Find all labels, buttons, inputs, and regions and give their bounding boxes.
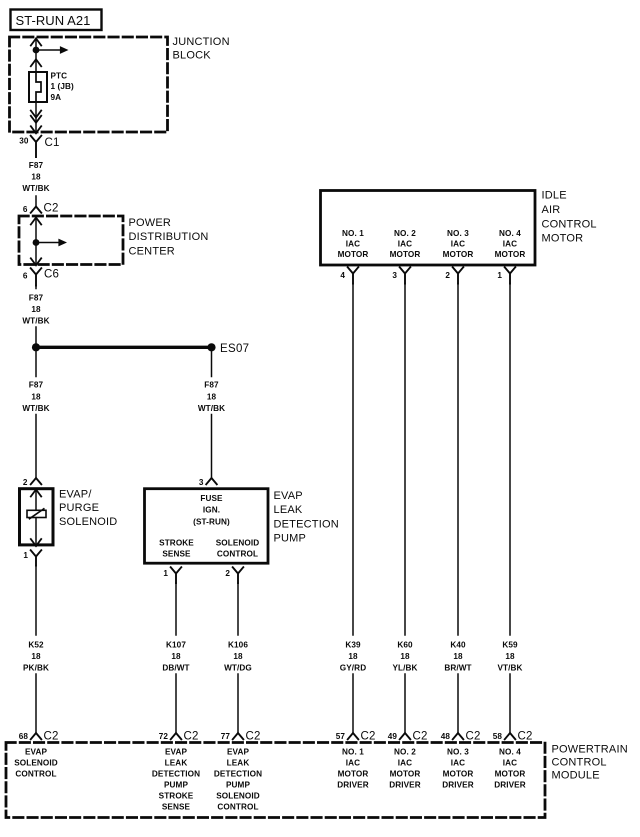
svg-text:MOTOR: MOTOR <box>495 770 526 779</box>
svg-text:EVAP: EVAP <box>227 748 250 757</box>
connector C2 pin 48 (PCM) <box>441 731 481 743</box>
svg-text:C2: C2 <box>413 731 428 743</box>
svg-text:57: 57 <box>336 732 346 741</box>
connector solenoid pin 2 <box>23 478 41 487</box>
wire F87 18 WT/BK (C6 to splice) <box>22 286 49 345</box>
svg-text:18: 18 <box>31 173 41 182</box>
connector C2 pin 68 (PCM) <box>19 731 59 743</box>
connector C2 pin 57 (PCM) <box>336 731 376 743</box>
solenoid EVAP/PURGE <box>20 489 54 546</box>
svg-text:3: 3 <box>392 271 397 280</box>
svg-text:C2: C2 <box>518 731 533 743</box>
svg-text:68: 68 <box>19 732 29 741</box>
svg-text:49: 49 <box>388 732 398 741</box>
svg-text:F87: F87 <box>204 381 219 390</box>
svg-text:C6: C6 <box>44 269 59 281</box>
svg-text:K40: K40 <box>450 641 466 650</box>
label POWER DISTRIBUTION CENTER <box>129 217 209 257</box>
svg-text:K106: K106 <box>228 641 248 650</box>
svg-text:PURGE: PURGE <box>59 502 99 514</box>
svg-text:SENSE: SENSE <box>162 550 191 559</box>
svg-text:FUSE: FUSE <box>200 494 223 503</box>
connector IAC pin 2 <box>445 267 463 283</box>
svg-text:DETECTION: DETECTION <box>274 518 339 530</box>
connector C1 pin 30 <box>19 136 59 157</box>
connector C2 pin 6 <box>23 203 59 215</box>
wire PTC to C1 <box>31 102 41 133</box>
svg-text:72: 72 <box>159 732 169 741</box>
pump EVAP LEAK DETECTION <box>145 489 269 564</box>
svg-text:PK/BK: PK/BK <box>23 663 49 672</box>
svg-text:K60: K60 <box>397 641 413 650</box>
svg-text:DETECTION: DETECTION <box>152 770 200 779</box>
connector IAC pin 1 <box>497 267 515 283</box>
svg-text:IAC: IAC <box>503 240 517 249</box>
svg-text:MODULE: MODULE <box>552 770 600 782</box>
svg-text:SOLENOID: SOLENOID <box>216 792 260 801</box>
svg-text:AIR: AIR <box>542 204 561 216</box>
svg-text:IAC: IAC <box>346 759 360 768</box>
wire branch arrow right (junction block) <box>36 46 69 54</box>
svg-text:58: 58 <box>493 732 503 741</box>
svg-text:MOTOR: MOTOR <box>495 250 526 259</box>
svg-text:48: 48 <box>441 732 451 741</box>
svg-text:IGN.: IGN. <box>203 506 220 515</box>
svg-text:SOLENOID: SOLENOID <box>14 759 58 768</box>
svg-text:4: 4 <box>340 271 345 280</box>
svg-text:WT/DG: WT/DG <box>224 663 252 672</box>
connector pump pin 2 <box>225 567 243 583</box>
label EVAP LEAK DETECTION PUMP <box>274 490 339 545</box>
svg-text:9A: 9A <box>51 93 62 102</box>
wire K52 18 PK/BK <box>23 566 49 734</box>
label PCM pin function NO. 1 DRIVER (x=353) <box>337 748 369 790</box>
fuse PTC 1 (JB) 9A <box>29 72 74 103</box>
svg-text:NO. 4: NO. 4 <box>499 748 521 757</box>
label PCM pin function EVAP SENSE (x=176) <box>152 748 200 812</box>
svg-text:GY/RD: GY/RD <box>340 663 366 672</box>
wire K60 18 YL/BK <box>392 284 417 734</box>
wire K106 18 WT/DG <box>224 583 252 733</box>
svg-text:JUNCTION: JUNCTION <box>173 36 230 48</box>
wire F87 18 WT/BK (C1 to C2) <box>22 161 49 207</box>
svg-text:IAC: IAC <box>398 759 412 768</box>
wire K40 18 BR/WT <box>444 284 471 734</box>
svg-text:DRIVER: DRIVER <box>337 781 369 790</box>
label PCM pin function NO. 4 DRIVER (x=510) <box>494 748 526 790</box>
svg-text:C1: C1 <box>45 137 60 149</box>
svg-text:SENSE: SENSE <box>162 803 191 812</box>
svg-text:18: 18 <box>348 652 358 661</box>
connector IAC pin 3 <box>392 267 410 283</box>
svg-text:18: 18 <box>31 652 41 661</box>
svg-text:6: 6 <box>23 272 28 281</box>
svg-text:IDLE: IDLE <box>542 190 567 202</box>
svg-text:NO. 2: NO. 2 <box>394 229 416 238</box>
svg-text:YL/BK: YL/BK <box>392 663 417 672</box>
svg-text:NO. 2: NO. 2 <box>394 748 416 757</box>
svg-text:DISTRIBUTION: DISTRIBUTION <box>129 231 209 243</box>
node junction in junction block <box>33 47 40 54</box>
svg-text:NO. 1: NO. 1 <box>342 229 364 238</box>
svg-text:MOTOR: MOTOR <box>390 770 421 779</box>
svg-text:18: 18 <box>400 652 410 661</box>
svg-text:EVAP: EVAP <box>165 748 188 757</box>
svg-text:WT/BK: WT/BK <box>22 184 49 193</box>
svg-text:C2: C2 <box>44 731 59 743</box>
connector C6 pin 6 <box>23 268 59 285</box>
wire K107 18 DB/WT <box>162 583 189 733</box>
svg-text:WT/BK: WT/BK <box>22 317 49 326</box>
svg-text:ES07: ES07 <box>220 343 249 355</box>
svg-text:2: 2 <box>445 271 450 280</box>
connector solenoid pin 1 <box>23 550 41 565</box>
label EVAP/PURGE SOLENOID <box>59 489 117 528</box>
label PCM pin function EVAP CONTROL (x=36) <box>14 748 58 779</box>
svg-text:CONTROL: CONTROL <box>217 550 258 559</box>
svg-text:IAC: IAC <box>451 759 465 768</box>
svg-text:WT/BK: WT/BK <box>22 404 49 413</box>
svg-text:NO. 1: NO. 1 <box>342 748 364 757</box>
svg-text:BR/WT: BR/WT <box>444 663 471 672</box>
svg-text:NO. 3: NO. 3 <box>447 229 469 238</box>
svg-text:77: 77 <box>221 732 231 741</box>
svg-text:30: 30 <box>19 137 29 146</box>
svg-text:MOTOR: MOTOR <box>338 250 369 259</box>
svg-text:IAC: IAC <box>451 240 465 249</box>
svg-text:STROKE: STROKE <box>159 539 194 548</box>
svg-text:PUMP: PUMP <box>226 781 250 790</box>
svg-text:K52: K52 <box>28 641 44 650</box>
svg-text:18: 18 <box>233 652 243 661</box>
label POWERTRAIN CONTROL MODULE <box>552 744 628 782</box>
svg-text:STROKE: STROKE <box>159 792 194 801</box>
wire K39 18 GY/RD <box>340 284 366 734</box>
svg-text:K39: K39 <box>345 641 361 650</box>
svg-text:K107: K107 <box>166 641 186 650</box>
svg-text:2: 2 <box>23 478 28 487</box>
svg-text:C2: C2 <box>361 731 376 743</box>
svg-text:1: 1 <box>23 551 28 560</box>
module POWERTRAIN CONTROL <box>6 743 545 818</box>
label PCM pin function EVAP CONTROL (x=238) <box>214 748 262 812</box>
connector pump pin 3 <box>199 478 217 487</box>
splice ES07 <box>32 343 249 355</box>
wire branch arrow right (PDC) <box>36 239 67 247</box>
svg-text:18: 18 <box>207 392 217 401</box>
svg-text:VT/BK: VT/BK <box>497 663 522 672</box>
svg-text:IAC: IAC <box>503 759 517 768</box>
power distribution center <box>19 216 123 265</box>
motor IDLE AIR CONTROL <box>321 191 536 266</box>
svg-text:EVAP: EVAP <box>25 748 48 757</box>
node junction in PDC <box>33 239 40 246</box>
svg-text:18: 18 <box>505 652 515 661</box>
svg-text:1: 1 <box>163 569 168 578</box>
svg-text:SOLENOID: SOLENOID <box>216 539 260 548</box>
svg-text:F87: F87 <box>29 161 44 170</box>
connector C2 pin 58 (PCM) <box>493 731 533 743</box>
label PCM pin function NO. 2 DRIVER (x=405) <box>389 748 421 790</box>
svg-text:CENTER: CENTER <box>129 245 175 257</box>
svg-text:DB/WT: DB/WT <box>162 663 189 672</box>
svg-text:EVAP/: EVAP/ <box>59 489 92 501</box>
wire F87 18 WT/BK (splice to pump) <box>198 347 225 478</box>
svg-text:2: 2 <box>225 569 230 578</box>
svg-text:LEAK: LEAK <box>165 759 188 768</box>
svg-text:6: 6 <box>23 205 28 214</box>
svg-text:BLOCK: BLOCK <box>173 50 212 62</box>
svg-text:NO. 4: NO. 4 <box>499 229 521 238</box>
wire ST-RUN A21 into junction block <box>31 39 41 73</box>
svg-text:18: 18 <box>31 392 41 401</box>
svg-text:CONTROL: CONTROL <box>542 218 597 230</box>
svg-text:POWERTRAIN: POWERTRAIN <box>552 744 628 756</box>
connector C2 pin 49 (PCM) <box>388 731 428 743</box>
svg-text:C2: C2 <box>44 203 59 215</box>
svg-text:DETECTION: DETECTION <box>214 770 262 779</box>
svg-text:CONTROL: CONTROL <box>15 770 56 779</box>
svg-text:LEAK: LEAK <box>227 759 250 768</box>
svg-text:IAC: IAC <box>346 240 360 249</box>
connector IAC pin 4 <box>340 267 358 283</box>
svg-text:F87: F87 <box>29 294 44 303</box>
svg-text:DRIVER: DRIVER <box>389 781 421 790</box>
svg-text:K59: K59 <box>502 641 518 650</box>
svg-text:DRIVER: DRIVER <box>442 781 474 790</box>
svg-text:ST-RUN A21: ST-RUN A21 <box>16 13 91 28</box>
connector pump pin 1 <box>163 567 181 583</box>
label PCM pin function NO. 3 DRIVER (x=458) <box>442 748 474 790</box>
svg-text:18: 18 <box>31 305 41 314</box>
svg-text:F87: F87 <box>29 381 44 390</box>
node ST-RUN A21 fuse feed <box>11 10 102 31</box>
svg-text:3: 3 <box>199 478 204 487</box>
svg-text:EVAP: EVAP <box>274 490 303 502</box>
connector C2 pin 72 (PCM) <box>159 731 199 743</box>
svg-text:SOLENOID: SOLENOID <box>59 516 117 528</box>
svg-text:CONTROL: CONTROL <box>217 803 258 812</box>
svg-text:MOTOR: MOTOR <box>443 250 474 259</box>
wire K59 18 VT/BK <box>497 284 522 734</box>
svg-text:DRIVER: DRIVER <box>494 781 526 790</box>
svg-text:CONTROL: CONTROL <box>552 757 607 769</box>
connector C2 pin 77 (PCM) <box>221 731 261 743</box>
junction block <box>10 37 168 132</box>
svg-text:1 (JB): 1 (JB) <box>51 82 75 91</box>
svg-text:PUMP: PUMP <box>164 781 188 790</box>
wire C2 to C6 through PDC <box>31 218 41 266</box>
svg-text:18: 18 <box>171 652 181 661</box>
svg-text:IAC: IAC <box>398 240 412 249</box>
svg-text:MOTOR: MOTOR <box>542 233 584 245</box>
svg-text:C2: C2 <box>466 731 481 743</box>
wire F87 18 WT/BK (splice to EVAP solenoid) <box>22 347 49 478</box>
label JUNCTION BLOCK <box>173 36 230 62</box>
svg-text:PTC: PTC <box>51 72 68 81</box>
svg-text:MOTOR: MOTOR <box>390 250 421 259</box>
svg-text:POWER: POWER <box>129 217 172 229</box>
svg-text:C2: C2 <box>246 731 261 743</box>
svg-text:LEAK: LEAK <box>274 504 303 516</box>
svg-text:18: 18 <box>453 652 463 661</box>
svg-text:MOTOR: MOTOR <box>443 770 474 779</box>
svg-text:PUMP: PUMP <box>274 533 307 545</box>
label IDLE AIR CONTROL MOTOR <box>542 190 597 245</box>
svg-text:(ST-RUN): (ST-RUN) <box>193 517 230 526</box>
svg-text:MOTOR: MOTOR <box>338 770 369 779</box>
svg-text:NO. 3: NO. 3 <box>447 748 469 757</box>
svg-text:C2: C2 <box>184 731 199 743</box>
svg-text:1: 1 <box>497 271 502 280</box>
svg-text:WT/BK: WT/BK <box>198 404 225 413</box>
